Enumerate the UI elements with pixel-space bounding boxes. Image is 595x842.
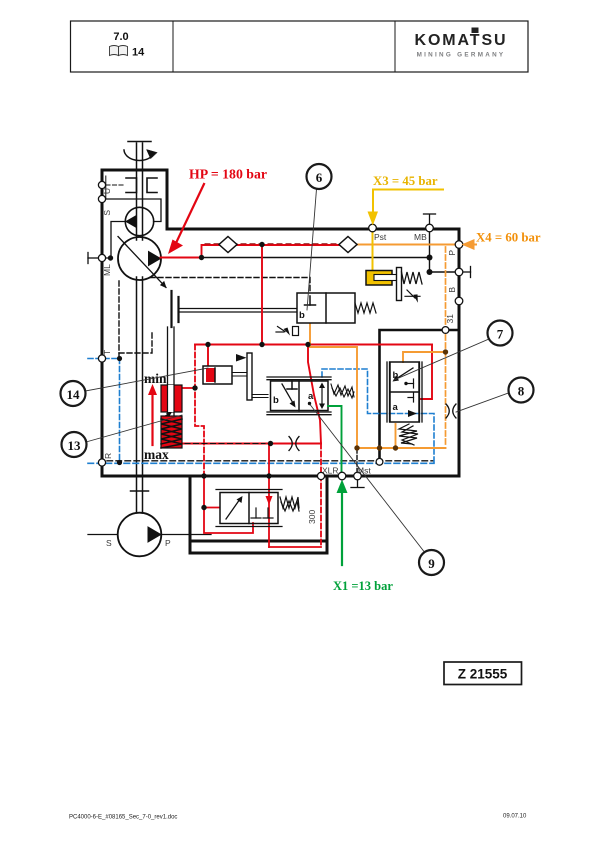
pressure cut-off adjuster arrow [405, 290, 420, 303]
svg-text:14: 14 [132, 47, 145, 59]
svg-text:7.0: 7.0 [113, 31, 128, 43]
orifice check diamond 2 [339, 237, 357, 253]
svg-text:B: B [447, 287, 457, 293]
wire: orange valve6 to bottom rail [310, 323, 357, 448]
svg-text:U: U [102, 188, 112, 194]
junction dot max rail [268, 441, 273, 446]
black dashed overlay on max rail [185, 443, 265, 445]
max spring box [161, 412, 182, 448]
junction dot MB line 2 [427, 255, 433, 261]
port S [98, 195, 105, 202]
orifice on max rail [289, 437, 299, 451]
junction dot rail 2 [259, 342, 264, 347]
B plug symbol [463, 267, 471, 278]
callout line 13 [86, 415, 182, 442]
svg-text:14: 14 [67, 387, 81, 402]
wire: red to valve7 right port [421, 345, 432, 400]
port P [455, 241, 463, 249]
header divider 2 [394, 21, 396, 72]
wire: dashed link to rod housing [119, 331, 152, 353]
wire: case thin line top-left [105, 176, 107, 199]
port Pst [369, 224, 377, 232]
pump housing outline [102, 170, 459, 476]
svg-text:T: T [102, 350, 112, 355]
HEADER [71, 21, 529, 72]
MB plug symbol [424, 214, 436, 227]
port ML [98, 254, 105, 261]
svg-text:b: b [273, 395, 279, 406]
junction dot rail 3 [305, 342, 310, 347]
wire: yellow Pst drop [372, 229, 374, 272]
port Mst [354, 472, 362, 480]
svg-text:13: 13 [68, 438, 82, 453]
junction dot MB line 1 [199, 255, 204, 260]
KOMATSU logo [415, 28, 508, 59]
wire: orange valve7 spring drain [395, 424, 397, 448]
junction dot extension valve [201, 505, 206, 510]
junction dot extension entry 2 [266, 473, 271, 478]
label X3 annotation [368, 174, 444, 226]
pressure cut-off piston yellow [366, 271, 398, 286]
wire: S port to gear pump inlet [106, 199, 161, 222]
wire: red stub to min piston [183, 387, 195, 389]
wire: red drop to regulator rail [261, 245, 263, 345]
header divider 1 [172, 21, 174, 72]
drawing number box Z 21555 [444, 662, 522, 685]
svg-text:7: 7 [497, 327, 504, 342]
wire: case drain dashed left vertical [118, 281, 120, 357]
junction dot ML [108, 255, 113, 260]
svg-text:09.07.10: 09.07.10 [503, 814, 527, 820]
green annotation arrow X1 [337, 480, 348, 566]
feedback link rod [252, 395, 268, 398]
port B [455, 268, 463, 276]
port T blue [98, 355, 105, 362]
label HP annotation [168, 167, 267, 255]
valve U3 spring sketchy [399, 424, 418, 445]
wire: red slant through valve a [308, 345, 321, 444]
callout circle 7 [488, 321, 513, 346]
extension valve spring [280, 497, 299, 511]
wire: red max rail [183, 443, 321, 445]
junction dot blue left bottom [117, 460, 122, 465]
extension valve rails [216, 490, 282, 527]
extension valve arrow [226, 496, 243, 519]
valve U2 pivot dot [308, 402, 311, 405]
shaft rotation arc [124, 150, 157, 161]
svg-text:300: 300 [307, 510, 317, 524]
shaft coupling brackets [126, 178, 157, 193]
junction circle drain-box [376, 458, 383, 465]
valve U2 spring [331, 384, 354, 398]
extension valve blocked ports [251, 508, 273, 518]
wire: red into extension valve [204, 476, 253, 533]
drive shaft upper [128, 142, 151, 241]
junction circle orange-box [442, 327, 449, 334]
wire: orange bottom rail [357, 447, 446, 449]
wire: orange dashed riser P to bottom [445, 247, 447, 446]
wire: Mst dashed riser [356, 449, 358, 471]
wire: red regulator rail [195, 344, 432, 346]
swash plate [172, 291, 179, 327]
wire: gear pump to ML loop [106, 222, 126, 259]
feedback plate arrow [236, 354, 247, 362]
svg-text:b: b [299, 310, 305, 321]
red flow arrow extension valve [266, 496, 273, 505]
junction dot min branch [192, 385, 197, 390]
pilot pump lower [88, 513, 211, 557]
min piston rod [168, 327, 175, 416]
callout circle 6 [307, 164, 332, 189]
callout line 6 [307, 189, 317, 310]
valve U1 pilot actuator [276, 327, 299, 336]
junction dot MB-B corner [427, 269, 433, 275]
valve U3 arrow b [393, 368, 414, 382]
orifice at valve7 [446, 404, 456, 418]
wire: ML plug stub outside [88, 253, 100, 264]
callout circle 8 [509, 378, 534, 403]
valve U3 blocked port b [408, 379, 414, 388]
svg-text:X3 = 45 bar: X3 = 45 bar [373, 174, 438, 188]
svg-text:MINING GERMANY: MINING GERMANY [417, 52, 506, 59]
junction dot extension entry 1 [201, 473, 206, 478]
pressure cut-off spring seat plate [397, 268, 402, 301]
callout line 14 [86, 368, 209, 391]
svg-text:S: S [102, 210, 112, 216]
svg-text:S: S [106, 538, 112, 548]
wire: red dashed return riser [320, 444, 322, 548]
feedback plate [247, 353, 252, 400]
junction dot orange rail 1 [354, 445, 359, 450]
gear pump (boost) [125, 207, 153, 235]
callout circle 13 [62, 432, 87, 457]
inner regulator box [380, 330, 459, 459]
pressure cut-off spring [402, 272, 423, 284]
port 31 [455, 297, 463, 305]
svg-text:9: 9 [428, 556, 435, 571]
port MB [426, 224, 434, 232]
drive shaft lower [131, 277, 149, 513]
valve U2 main spool body [271, 381, 329, 411]
main pump (variable) [118, 237, 166, 288]
label X4 annotation [462, 231, 541, 251]
valve U3 body [390, 362, 419, 422]
valve U1 regulator (cell b) [297, 293, 355, 323]
junction dot orange pilot branch [443, 349, 448, 354]
min piston red [161, 385, 182, 412]
svg-text:max: max [144, 447, 169, 462]
wire: MB riser to B [430, 229, 456, 272]
callout circle 9 [419, 550, 444, 575]
svg-text:P: P [447, 250, 457, 256]
wire: red drop through extension valve [268, 444, 270, 548]
wire: black drain dashed bottom [107, 460, 433, 462]
valve U2 arrow b [282, 384, 296, 408]
orifice check diamond 1 [219, 237, 237, 253]
svg-text:ML: ML [102, 264, 112, 276]
wire: red dashed min-piston branch [195, 345, 204, 477]
junction dot rail 1 [205, 342, 210, 347]
red min-max arrow [148, 384, 157, 445]
valve U2 main spool rails [267, 377, 331, 415]
wire: blue left riser [119, 359, 121, 464]
valve U3 pin dot [404, 382, 407, 385]
svg-text:a: a [393, 402, 399, 413]
wire: blue pilot to valves [322, 369, 434, 462]
callout line 7 [394, 339, 489, 380]
svg-text:a: a [308, 391, 314, 402]
header table frame [71, 21, 529, 72]
port R [98, 459, 105, 466]
junction dot HP branch [259, 242, 264, 247]
svg-text:min: min [144, 371, 167, 386]
wire: U port dashed stub [106, 184, 124, 186]
svg-text:MB: MB [414, 232, 427, 242]
junction dot blue left top [117, 356, 122, 361]
valve U3 arrow a [408, 410, 417, 417]
wire: red dashed overlay on HP line [205, 243, 345, 245]
svg-text:PC4000-6-E_#08165_Sec_7-0_rev1: PC4000-6-E_#08165_Sec_7-0_rev1.doc [69, 815, 177, 821]
valve U3 blocked port a [408, 393, 414, 402]
port crossing red [317, 472, 324, 479]
junction dot orange rail 2 [377, 445, 382, 450]
wire: case drain dashed to valve 6 [150, 278, 310, 294]
wire: blue bottom drain line [88, 462, 434, 464]
servo feedback rod [179, 309, 297, 313]
junction dot orange rail 3 [393, 445, 398, 450]
port U [98, 181, 105, 188]
valve U2 flow path a [319, 383, 325, 410]
svg-text:31: 31 [445, 314, 455, 324]
svg-text:KOMATSU: KOMATSU [415, 32, 508, 49]
wire: black line pump to MB [202, 257, 430, 259]
valve U1 spring [355, 303, 376, 313]
servo cylinder small [203, 366, 247, 384]
svg-text:P: P [165, 538, 171, 548]
wire: red bottom link in extension box [269, 546, 321, 548]
svg-text:R: R [103, 453, 113, 459]
wire: red drop to servo cylinder [207, 345, 209, 367]
svg-text:Z 21555: Z 21555 [458, 667, 508, 682]
callout line 8 [456, 393, 509, 412]
wire: orange branch to valve7 pilot [403, 352, 446, 362]
extension valve body [220, 493, 278, 524]
svg-text:X4 = 60 bar: X4 = 60 bar [476, 231, 541, 245]
callout line 9 [310, 405, 424, 552]
svg-text:8: 8 [518, 384, 525, 399]
svg-text:HP = 180 bar: HP = 180 bar [189, 167, 267, 182]
wire: orange X4 line into P [350, 244, 456, 246]
svg-text:Pst: Pst [374, 232, 387, 242]
wire: red HP main from pump [161, 245, 351, 258]
book icon [110, 46, 128, 56]
callout circle 14 [61, 381, 86, 406]
svg-text:X1 =13 bar: X1 =13 bar [333, 579, 393, 593]
lower extension box [190, 477, 327, 553]
wire: blue T port stub [88, 358, 118, 360]
wire: green X1 to valve U2 [328, 406, 342, 473]
FOOTER [69, 814, 527, 821]
valve U3 pressure control rails [387, 362, 422, 422]
svg-text:6: 6 [316, 170, 323, 185]
Mst plug symbol [351, 480, 364, 488]
port XLR [338, 472, 346, 480]
